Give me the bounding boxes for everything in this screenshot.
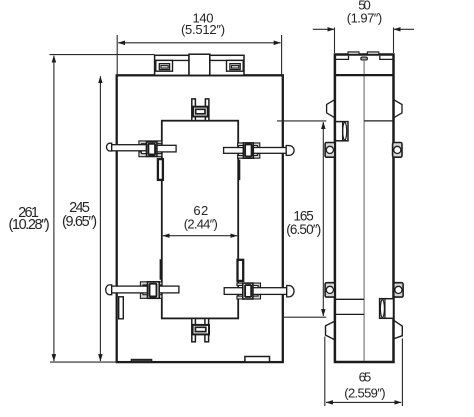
side view upper bump right — [394, 100, 403, 118]
screw assembly row1 right: extension bar — [224, 148, 244, 154]
dim 165 bottom extension — [283, 316, 327, 318]
top clip buckle inner — [196, 109, 205, 114]
DIMENSIONS — [50, 28, 415, 407]
bottom clip buckle outer — [193, 325, 209, 335]
screw assembly row2 left: head — [106, 285, 112, 295]
top tab 2 body — [210, 55, 244, 75]
top tab 2 band line — [210, 59, 244, 61]
side view lower barb right — [394, 320, 403, 339]
screw assembly row1 left: head — [107, 143, 112, 151]
screw assembly row1 left: inner ring — [148, 144, 155, 155]
top center section — [189, 54, 210, 75]
side view slot row1 left — [335, 122, 348, 141]
left wall rib — [119, 297, 124, 319]
top tab 1 band line — [155, 59, 189, 61]
screw assembly row1 right: top flange — [238, 143, 260, 147]
top tab 1 connector inner — [161, 65, 168, 68]
window corner bar lower-left — [160, 259, 163, 280]
screw assembly row2 right: extension bar — [224, 288, 243, 295]
dim 140 line — [118, 42, 280, 44]
screw assembly row1 left: block — [147, 142, 157, 156]
dim 140 extension line right — [281, 35, 283, 75]
side view slot row2 right — [380, 299, 394, 319]
svg-text:(1.97″): (1.97″) — [347, 11, 382, 26]
svg-text:(10.28″): (10.28″) — [9, 217, 50, 233]
screw assembly row2 left: block — [148, 282, 160, 299]
screw assembly row2 right: inner ring — [245, 285, 251, 297]
side screw head row2 left — [325, 283, 335, 297]
dim 165 line — [322, 122, 324, 316]
top tab 2 connector inner — [232, 65, 239, 68]
window opening — [162, 121, 238, 319]
side view lower barb left — [326, 321, 335, 340]
screw assembly row2 left: extension bar — [159, 286, 179, 293]
screw assembly row2 right: top flange — [237, 283, 261, 287]
side view top bump 2 — [367, 52, 378, 55]
side screw head row1 right — [393, 143, 402, 158]
svg-text:62: 62 — [193, 203, 208, 218]
side screw circle row2 right — [395, 286, 402, 293]
dim 50 line left — [313, 28, 334, 30]
side screw circle row1 left — [326, 146, 333, 153]
top tab 2 connector outer — [230, 64, 240, 70]
screw assembly row1 left: bottom flange — [139, 152, 162, 157]
screw assembly row2 right: bottom flange — [237, 295, 261, 300]
svg-text:(6.50″): (6.50″) — [286, 222, 321, 237]
top tab 1 body — [155, 55, 189, 75]
window corner bar upper-right — [238, 160, 241, 180]
svg-text:(2.559″): (2.559″) — [344, 386, 385, 401]
dim 261 bottom extension line — [50, 361, 117, 363]
dim 140 extension line left — [116, 35, 118, 75]
side view right panel line — [364, 120, 393, 122]
bottom clip buckle inner — [195, 327, 205, 331]
bottom foot right — [245, 357, 270, 362]
svg-text:(9.65″): (9.65″) — [62, 214, 97, 230]
top clip buckle outer — [193, 107, 208, 117]
dim 50 extension left — [334, 28, 336, 54]
top tab 1 lower box — [156, 60, 173, 71]
screw assembly row1 right: shaft — [253, 148, 286, 154]
side view left panel lines — [335, 299, 364, 314]
side view slot row1 divider — [342, 122, 344, 141]
window corner block lower-right — [238, 260, 244, 281]
screw assembly row1 left: top flange — [139, 141, 162, 146]
side view step line — [335, 74, 394, 76]
dim 245 line — [99, 76, 101, 361]
side view top cap step line — [335, 56, 394, 60]
screw assembly row2 left: bottom flange — [140, 293, 162, 298]
screw assembly row1 right: head — [286, 146, 294, 156]
svg-text:65: 65 — [359, 370, 372, 385]
screw assembly row1 right: bottom flange — [238, 154, 260, 158]
top tab 1 connector outer — [159, 64, 169, 70]
dim 65 extension right — [401, 338, 403, 406]
SIDE VIEW — [325, 52, 403, 362]
screw assembly row2 right: shaft — [253, 288, 287, 295]
side view top bump 1 — [348, 52, 359, 55]
screw assembly row1 right: inner ring — [245, 144, 252, 156]
bottom clip right prong — [205, 318, 209, 341]
screw assembly row2 right: block — [243, 283, 253, 299]
side view slot row2 ellipse — [380, 300, 384, 318]
dim 62 line — [163, 235, 237, 237]
side screw head row1 left — [325, 143, 335, 158]
window corner block upper-left — [158, 159, 163, 180]
side screw circle row1 right — [394, 146, 401, 153]
side view upper bump left — [327, 100, 335, 118]
dim 261 line — [53, 56, 55, 362]
top tab 2 lower box — [227, 60, 244, 71]
clamp screw assemblies (front view) — [106, 141, 294, 299]
side view slot row1 ellipse — [343, 122, 347, 140]
bottom foot left — [131, 359, 152, 362]
dim 50 extension right — [393, 28, 395, 54]
bottom clip left prong — [192, 318, 196, 341]
screw assembly row1 left: extension bar — [157, 145, 176, 152]
dimension labels — [9, 0, 386, 401]
side view top slot — [361, 57, 368, 60]
dim 50 line right — [394, 28, 414, 30]
screw assembly row2 left: top flange — [140, 282, 162, 287]
screw assembly row2 left: shaft — [112, 286, 148, 293]
dim 261 top extension line — [50, 54, 155, 56]
svg-text:(2.44″): (2.44″) — [184, 217, 218, 232]
screw assembly row1 left: shaft — [112, 145, 147, 151]
svg-text:(5.512″): (5.512″) — [181, 22, 225, 37]
screw assembly row2 right: head — [287, 286, 294, 297]
side screw head row2 right — [394, 283, 403, 297]
top clip left prong — [192, 99, 196, 121]
side view body outline — [335, 55, 394, 363]
screw assembly row2 left: inner ring — [150, 284, 157, 297]
dim 65 line — [326, 401, 401, 403]
screw assembly row1 right: block — [243, 143, 253, 158]
side view slot row2 divider — [384, 299, 386, 319]
top clip right prong — [205, 99, 209, 121]
side screw circle row2 left — [326, 286, 333, 293]
front view body outline — [117, 75, 283, 362]
dim 65 extension left — [324, 337, 326, 407]
dim 165 top extension — [277, 120, 326, 122]
side view center parting line — [363, 60, 365, 361]
